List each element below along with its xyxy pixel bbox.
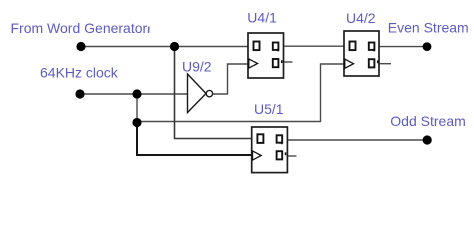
- svg-text:From Word Generator: From Word Generator: [11, 20, 148, 36]
- svg-text:U5/1: U5/1: [254, 101, 284, 117]
- svg-text:Odd Stream: Odd Stream: [390, 113, 465, 129]
- svg-text:64KHz clock: 64KHz clock: [40, 65, 119, 81]
- svg-text:Even Stream: Even Stream: [388, 20, 469, 36]
- svg-text:U9/2: U9/2: [182, 59, 212, 75]
- svg-text:U4/2: U4/2: [346, 10, 376, 26]
- svg-text:U4/1: U4/1: [247, 10, 277, 26]
